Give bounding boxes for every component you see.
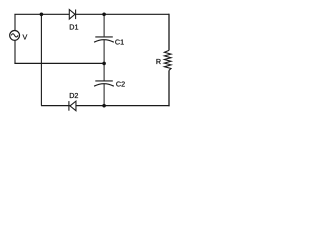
svg-text:C2: C2 [116, 80, 125, 89]
svg-text:D2: D2 [69, 91, 78, 100]
svg-text:V: V [23, 32, 28, 41]
svg-text:R: R [156, 57, 161, 66]
svg-text:C1: C1 [115, 38, 124, 47]
svg-text:D1: D1 [69, 22, 78, 31]
